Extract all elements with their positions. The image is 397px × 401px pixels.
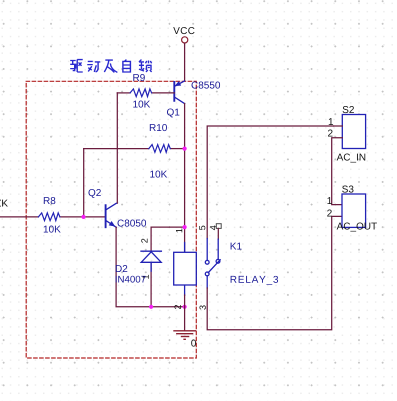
diode D2 xyxy=(141,251,161,271)
wire S2 pin1 stub xyxy=(334,125,343,127)
value 10K R8 xyxy=(44,226,61,233)
ground net 0 xyxy=(191,340,196,347)
wire VCC to Q1 emitter xyxy=(184,43,186,81)
pin 1 coil xyxy=(176,229,182,233)
designator S3 xyxy=(342,186,353,193)
wire Q1 collector to relay coil xyxy=(184,104,186,253)
dangling wire end marker pin4 xyxy=(216,224,221,229)
relay K1 contacts xyxy=(205,239,220,288)
pin 2 S3 xyxy=(327,210,332,217)
designator D2 xyxy=(116,265,127,272)
pin 5 contact xyxy=(199,226,205,230)
wire S2 pin2 to S3 pin1 xyxy=(332,138,343,205)
value IN4007 xyxy=(116,276,146,283)
pin 4 contact xyxy=(210,226,216,231)
wire D2 anode to bottom rail xyxy=(150,263,152,307)
title 驱动及自锁 xyxy=(70,60,151,73)
pin 2 coil xyxy=(174,305,180,309)
value 10K R10 xyxy=(150,171,167,178)
transistor Q1 xyxy=(174,81,184,104)
wire ground stem xyxy=(184,307,186,331)
relay K1 coil xyxy=(184,243,186,296)
designator Q1 xyxy=(167,109,179,118)
dashed selection box xyxy=(26,81,196,358)
designator R10 xyxy=(150,124,167,131)
power VCC label xyxy=(173,27,194,34)
designator K1 xyxy=(231,243,242,250)
junction coil bottom / ground xyxy=(183,305,187,309)
wire coil bottom to ground node xyxy=(184,295,186,307)
net label AC_IN xyxy=(337,154,366,163)
value C8050 xyxy=(118,220,147,227)
pin 1 S3 xyxy=(327,197,331,204)
transistor Q2 xyxy=(106,203,117,227)
junction R10 right xyxy=(183,147,187,151)
wire relay pin3 loop to S3 pin2 xyxy=(207,216,342,329)
wire R10 left down to R8 node xyxy=(83,149,85,217)
designator Q2 xyxy=(88,189,100,198)
connector S3 xyxy=(342,194,366,227)
designator R9 xyxy=(133,74,144,81)
junction D2 top xyxy=(183,225,187,229)
net label AC_OUT xyxy=(337,223,377,232)
wire R9 left to Q2 collector xyxy=(116,93,118,203)
designator R8 xyxy=(44,197,56,204)
pin 1 D2 xyxy=(143,275,149,279)
resistor R8 xyxy=(0,216,38,218)
resistor R9 xyxy=(117,92,130,94)
designator S2 xyxy=(343,106,354,113)
wire Q2 emitter to bottom rail xyxy=(116,227,185,306)
power VCC terminal xyxy=(182,37,188,43)
resistor R10 xyxy=(84,148,149,150)
pin 2 S2 xyxy=(328,130,333,137)
wire pin4 stub xyxy=(217,228,219,239)
value 10K R9 xyxy=(133,101,150,108)
junction R8/R10/Q2 base xyxy=(81,215,85,219)
junction D2 bottom xyxy=(149,305,153,309)
wire D2 cathode to coil node xyxy=(151,227,185,251)
pin 1 S2 xyxy=(329,118,333,125)
net label K (clipped) xyxy=(0,200,8,207)
pin 2 D2 xyxy=(141,239,147,243)
value RELAY_3 xyxy=(231,276,278,285)
wire relay pin5 to S2 pin1 xyxy=(207,126,333,239)
ground symbol xyxy=(173,331,196,340)
connector S2 xyxy=(342,115,365,149)
pin 3 contact xyxy=(199,305,205,309)
value C8550 xyxy=(192,82,221,89)
